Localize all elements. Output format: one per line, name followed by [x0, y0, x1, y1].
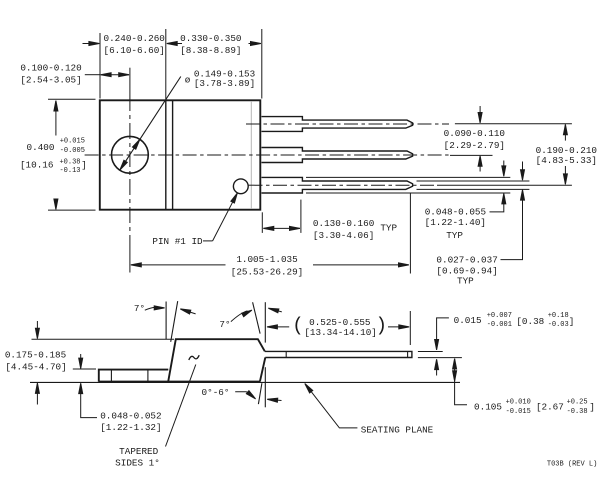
extension line body right edge up	[261, 29, 263, 99]
svg-text:0.100-0.120: 0.100-0.120	[20, 63, 81, 74]
tab top extension line	[73, 368, 96, 370]
svg-text:ø: ø	[185, 75, 191, 86]
svg-text:[2.54-3.05]: [2.54-3.05]	[20, 75, 81, 86]
right 7 degree slant line	[253, 302, 261, 333]
lead tick 2	[407, 351, 409, 357]
svg-text:+0.18: +0.18	[548, 312, 569, 320]
hole horizontal centerline / lead 2 centerline	[85, 154, 450, 156]
side view body outline	[168, 339, 265, 381]
svg-text:0.240-0.260: 0.240-0.260	[104, 33, 165, 44]
svg-text:-0.03: -0.03	[548, 321, 569, 329]
svg-text:0.015: 0.015	[454, 315, 482, 326]
extension line body left edge up	[99, 33, 101, 99]
svg-text:[1.22-1.32]: [1.22-1.32]	[100, 422, 161, 433]
left 7 degree slant line	[171, 301, 178, 342]
svg-text:]: ]	[81, 160, 87, 171]
svg-text:0°-6°: 0°-6°	[202, 387, 230, 398]
tab tick 1	[110, 370, 112, 382]
lead 2	[262, 148, 413, 163]
faint chamfer line	[250, 101, 252, 209]
svg-text:[4.45-4.70]: [4.45-4.70]	[5, 361, 66, 372]
dimension 0.105 arrows and leader	[453, 359, 457, 369]
top view body outline	[100, 100, 260, 209]
svg-text:[1.22-1.40]: [1.22-1.40]	[425, 217, 486, 228]
svg-text:0.330-0.350: 0.330-0.350	[180, 33, 241, 44]
seating plane line	[30, 381, 460, 383]
mounting hole	[111, 136, 148, 173]
dimension 0.048-0.055 arrows and leader	[503, 161, 505, 176]
dimension 0.048-0.052 arrows and leader	[80, 354, 82, 368]
svg-text:0.105: 0.105	[474, 402, 502, 413]
extension line step up	[165, 29, 167, 99]
lead 3 thin edge extension lines	[417, 180, 530, 182]
tilde mark	[189, 355, 199, 360]
svg-text:SEATING PLANE: SEATING PLANE	[361, 425, 434, 436]
svg-text:(: (	[292, 315, 303, 337]
dimension 0.015 leader and arrows	[437, 318, 449, 348]
svg-text:]: ]	[589, 402, 595, 413]
pin 1 id circle	[233, 179, 248, 194]
svg-text:[3.30-4.06]: [3.30-4.06]	[313, 230, 374, 241]
svg-text:0.175-0.185: 0.175-0.185	[5, 350, 66, 361]
dimension 1.005-1.035	[131, 264, 226, 266]
dimension 0.027-0.037 arrows and leader	[522, 162, 524, 180]
svg-text:[4.83-5.33]: [4.83-5.33]	[536, 155, 597, 166]
svg-text:[6.10-6.60]: [6.10-6.60]	[104, 45, 165, 56]
svg-text:[0.38: [0.38	[516, 316, 544, 327]
svg-text:0.048-0.055: 0.048-0.055	[425, 207, 486, 218]
svg-text:]: ]	[569, 316, 575, 327]
lead 3	[262, 177, 413, 193]
svg-text:): )	[376, 315, 387, 337]
left 7 degree right arrow	[181, 309, 196, 314]
svg-text:0.027-0.037: 0.027-0.037	[436, 254, 497, 265]
svg-text:+0.015: +0.015	[60, 138, 85, 146]
side view lead	[265, 351, 412, 357]
svg-text:7°: 7°	[134, 303, 145, 314]
left 7 degree leader arrow	[145, 307, 158, 310]
pin 1 id leader	[203, 240, 213, 242]
svg-text:0.130-0.160: 0.130-0.160	[313, 218, 374, 229]
svg-text:-0.005: -0.005	[60, 147, 85, 155]
tapered sides leader	[166, 365, 196, 447]
svg-text:SIDES 1°: SIDES 1°	[115, 458, 160, 469]
side view tab	[99, 370, 169, 382]
dimension 0.130-0.160	[261, 212, 263, 233]
dimension 0.190-0.210	[564, 124, 566, 140]
dimension 0.090-0.110 arrows	[479, 106, 481, 122]
svg-text:TAPERED: TAPERED	[119, 446, 158, 457]
svg-text:[8.38-8.89]: [8.38-8.89]	[180, 45, 241, 56]
svg-text:PIN #1 ID: PIN #1 ID	[152, 236, 203, 247]
svg-text:-0.015: -0.015	[506, 408, 531, 416]
diameter leader and arrows	[120, 77, 181, 171]
right 7 degree right arrow	[269, 308, 282, 312]
svg-text:-0.13: -0.13	[59, 167, 80, 175]
top edge extension line left	[32, 338, 175, 340]
svg-text:-0.001: -0.001	[487, 321, 512, 329]
svg-text:T03B (REV L): T03B (REV L)	[547, 461, 597, 469]
lead 1	[262, 117, 413, 132]
dimension 0.330-0.350 arrows	[249, 43, 261, 45]
svg-text:[13.34-14.10]: [13.34-14.10]	[304, 327, 377, 338]
lead tick 1	[285, 351, 287, 357]
svg-text:TYP: TYP	[446, 230, 463, 241]
svg-text:-0.38: -0.38	[567, 408, 588, 416]
svg-text:[2.67: [2.67	[536, 402, 564, 413]
svg-text:0.048-0.052: 0.048-0.052	[100, 410, 161, 421]
dimension 0.525-0.555	[268, 326, 289, 328]
hole vertical centerline	[129, 68, 131, 95]
lead 3 stub edge extension lines	[306, 176, 510, 178]
svg-text:TYP: TYP	[380, 223, 397, 234]
svg-text:0.400: 0.400	[27, 142, 55, 153]
svg-text:+0.25: +0.25	[567, 398, 588, 406]
dimension 0.175-0.185 arrows	[36, 321, 38, 338]
svg-text:[25.53-26.29]: [25.53-26.29]	[231, 267, 304, 278]
svg-text:1.005-1.035: 1.005-1.035	[236, 254, 297, 265]
lead 3 centerline	[249, 184, 438, 186]
svg-text:[10.16: [10.16	[20, 160, 53, 171]
right 7 degree leader arrow	[231, 311, 248, 322]
left 7 degree reference line	[165, 302, 167, 340]
body step line 1	[165, 101, 167, 210]
right 7 degree reference line	[264, 302, 266, 342]
svg-text:[3.78-3.89]: [3.78-3.89]	[194, 78, 255, 89]
svg-text:+0.38: +0.38	[59, 158, 80, 166]
svg-text:[2.29-2.79]: [2.29-2.79]	[444, 140, 505, 151]
svg-text:TYP: TYP	[457, 275, 474, 286]
dimension 0.100-0.120 lines	[85, 74, 100, 76]
svg-text:0.090-0.110: 0.090-0.110	[444, 128, 505, 139]
lead 1 centerline	[246, 123, 449, 125]
svg-text:+0.007: +0.007	[487, 312, 512, 320]
svg-text:+0.010: +0.010	[506, 398, 531, 406]
svg-text:7°: 7°	[219, 319, 230, 330]
dimension 0-6 degrees	[258, 383, 262, 404]
dimension 0.240-0.260 arrows	[83, 43, 99, 45]
seating plane leader	[303, 382, 313, 393]
body step line 2	[172, 101, 174, 210]
tab tick 2	[147, 370, 149, 382]
dimension 0.400 lines	[48, 98, 96, 100]
